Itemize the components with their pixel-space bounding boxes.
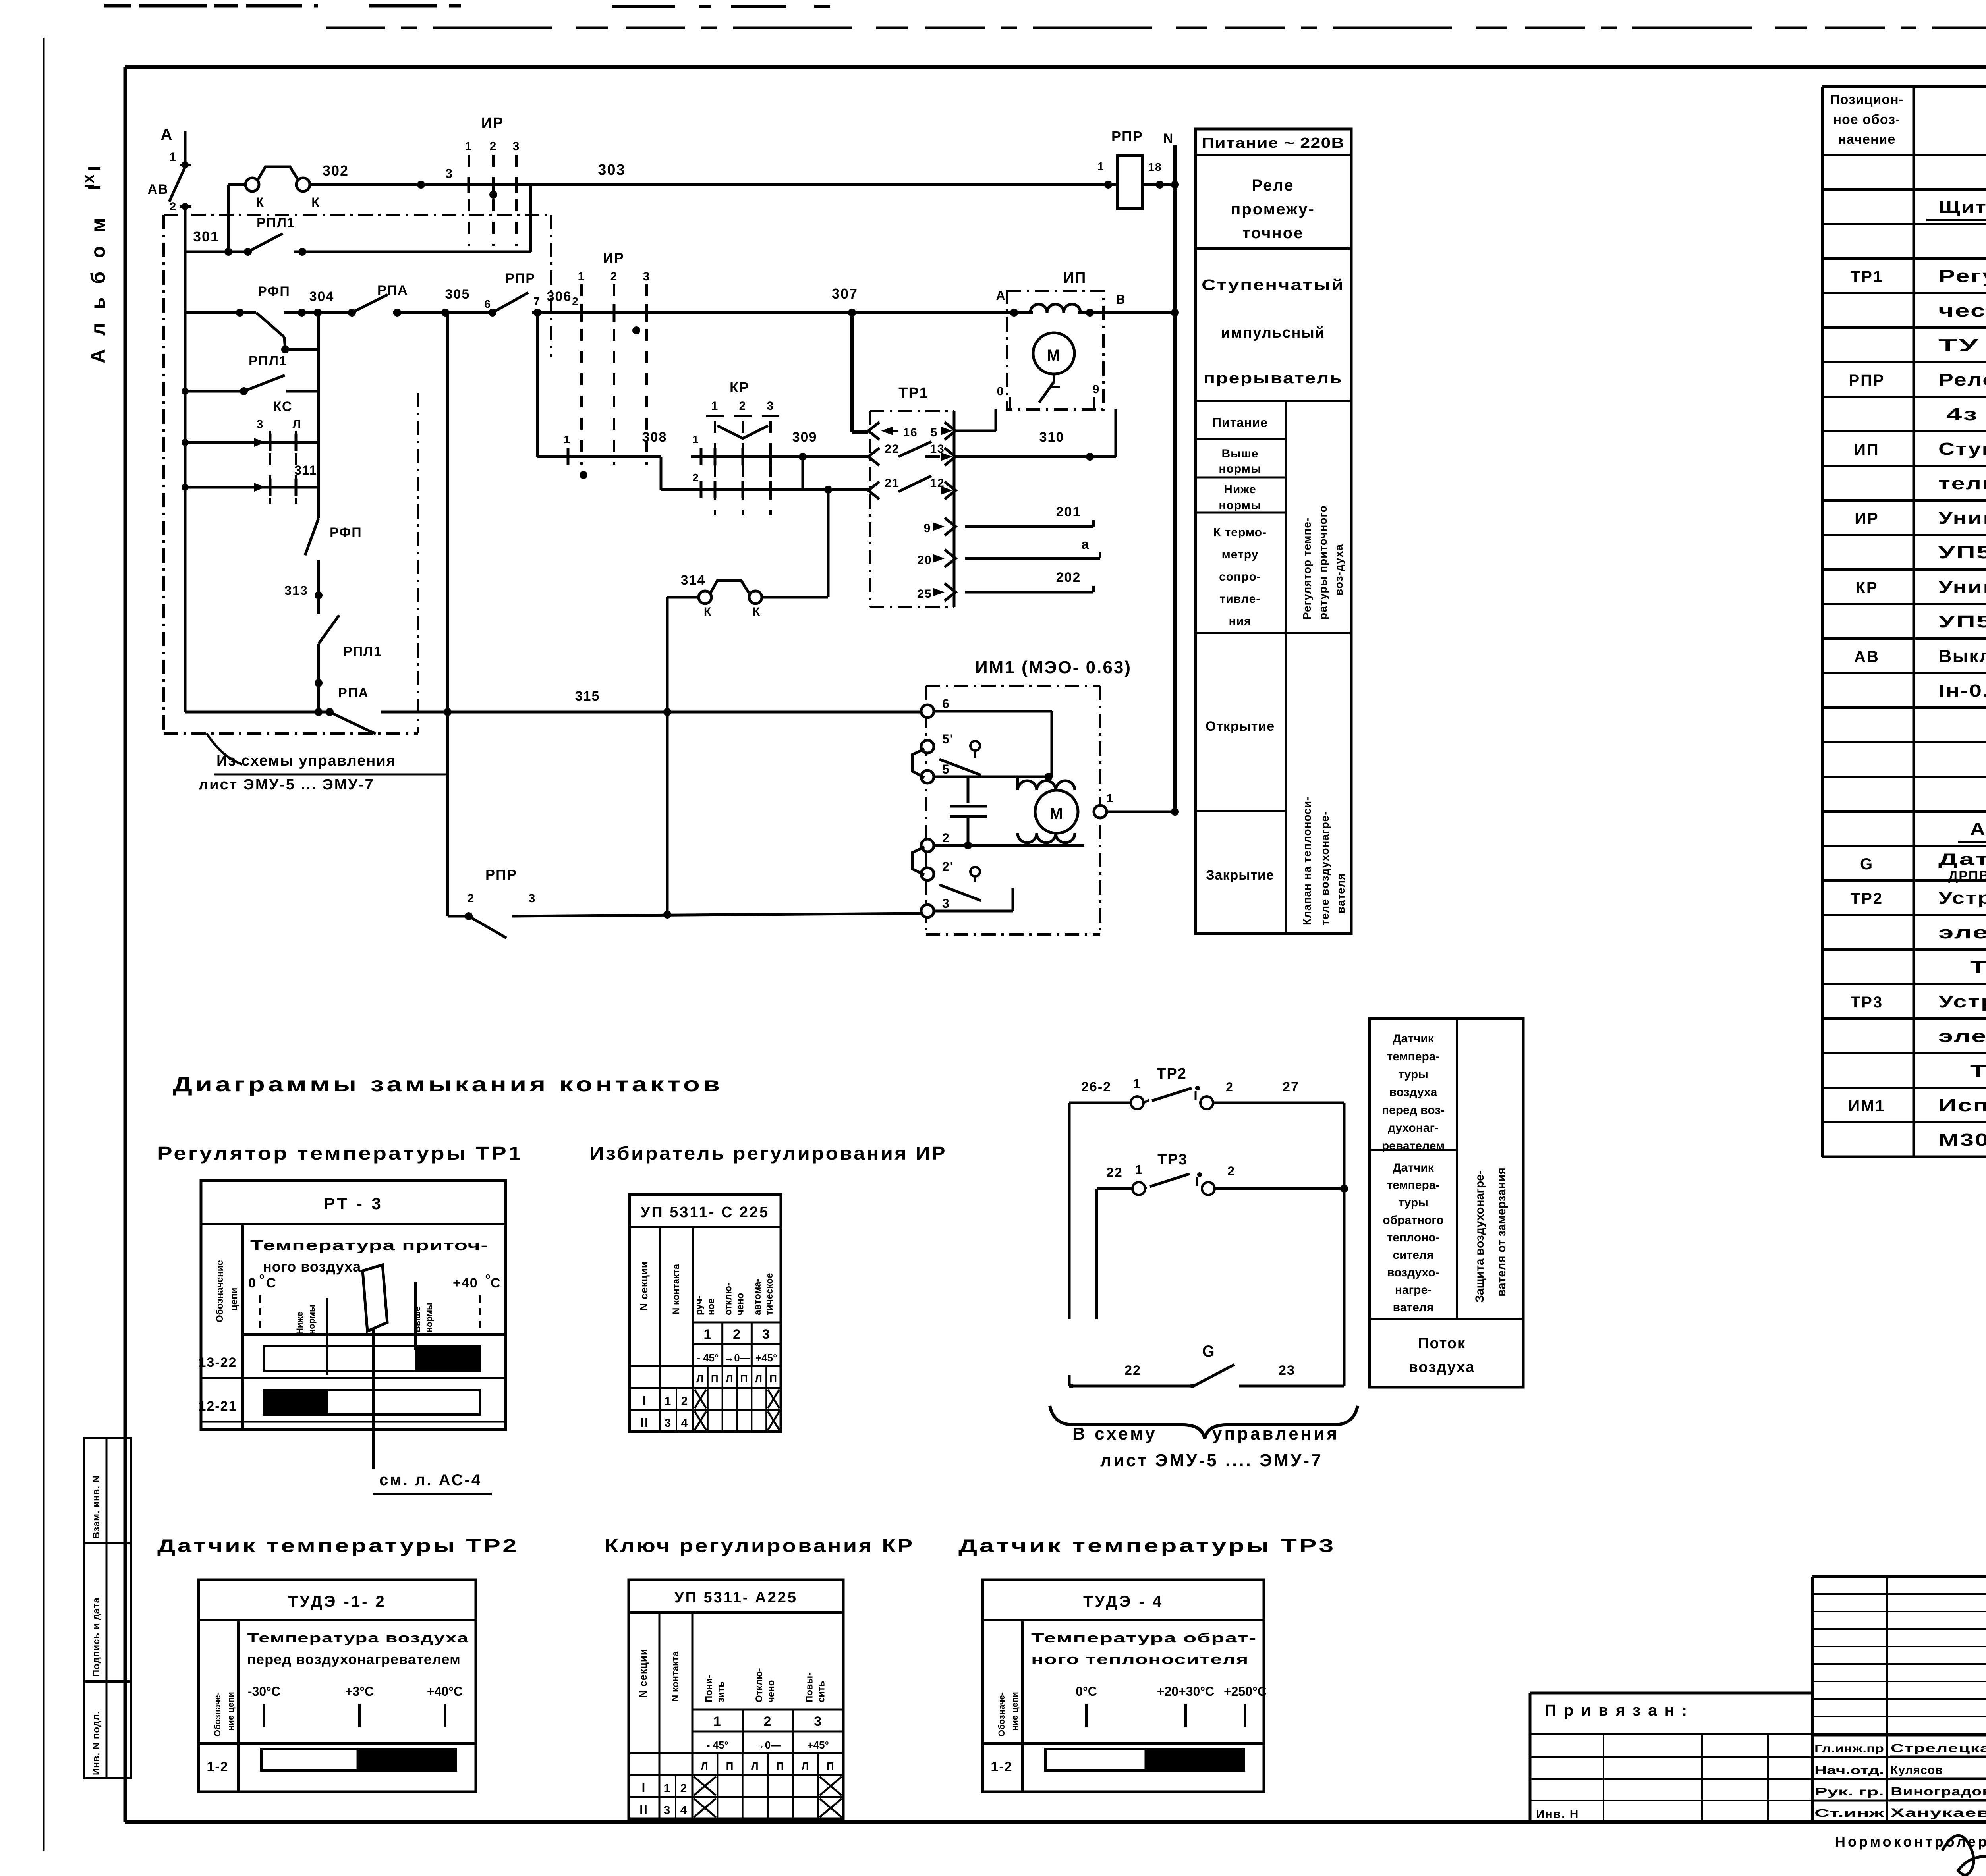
- svg-text:307: 307: [832, 286, 858, 302]
- svg-text:2: 2: [1227, 1164, 1235, 1178]
- svg-text:I: I: [643, 1393, 647, 1408]
- svg-text:21: 21: [885, 477, 899, 490]
- svg-text:Обозначение: Обозначение: [214, 1260, 225, 1322]
- svg-text:управления: управления: [1212, 1424, 1339, 1444]
- svg-text:Инв. Н: Инв. Н: [1536, 1808, 1579, 1821]
- svg-text:Реле: Реле: [1252, 177, 1294, 194]
- svg-text:Кулясов: Кулясов: [1891, 1764, 1943, 1777]
- svg-text:Открытие: Открытие: [1206, 719, 1275, 734]
- svg-text:П: П: [740, 1373, 749, 1385]
- svg-text:20: 20: [917, 554, 932, 567]
- svg-text:Л: Л: [755, 1373, 763, 1385]
- svg-text:Защита воздухонагре-: Защита воздухонагре-: [1473, 1170, 1486, 1303]
- svg-text:Реле промежуточное ПЭ-21УЗ ~: Реле промежуточное ПЭ-21УЗ ~ 220В: [1938, 370, 1986, 390]
- svg-text:Ниже: Ниже: [1224, 483, 1256, 496]
- svg-text:ТР1: ТР1: [1851, 268, 1883, 286]
- svg-text:тическое: тическое: [764, 1273, 775, 1315]
- svg-text:обратного: обратного: [1383, 1214, 1443, 1227]
- svg-text:G: G: [1860, 855, 1874, 873]
- svg-text:N секции: N секции: [637, 1648, 649, 1698]
- svg-text:+40°С: +40°С: [427, 1684, 463, 1698]
- svg-text:РПА: РПА: [377, 283, 408, 298]
- svg-text:ТР2: ТР2: [1157, 1065, 1187, 1082]
- svg-text:I: I: [642, 1781, 646, 1795]
- svg-text:Л: Л: [292, 418, 301, 431]
- svg-text:лист ЭМУ-5 .... ЭМУ-7: лист ЭМУ-5 .... ЭМУ-7: [1100, 1451, 1323, 1470]
- svg-text:Температура обрат-: Температура обрат-: [1031, 1631, 1257, 1646]
- svg-text:ТР3: ТР3: [1157, 1151, 1188, 1168]
- svg-text:П: П: [827, 1760, 835, 1772]
- svg-text:27: 27: [1283, 1079, 1299, 1094]
- svg-text:Л: Л: [751, 1760, 759, 1772]
- svg-text:1: 1: [692, 433, 699, 446]
- svg-text:ного воздуха: ного воздуха: [263, 1258, 361, 1275]
- svg-text:306: 306: [547, 289, 572, 304]
- svg-text:1: 1: [664, 1782, 671, 1795]
- svg-text:4: 4: [680, 1804, 688, 1817]
- svg-text:Повы-: Повы-: [804, 1673, 815, 1702]
- svg-text:304: 304: [309, 289, 334, 304]
- svg-text:6: 6: [484, 298, 491, 310]
- svg-text:Регулятор температуры ТР1: Регулятор температуры ТР1: [157, 1143, 523, 1164]
- svg-text:начение: начение: [1838, 132, 1896, 147]
- svg-text:308: 308: [642, 430, 667, 445]
- svg-text:ДРПВ-2: ДРПВ-2: [1948, 869, 1986, 884]
- svg-text:воз-духа: воз-духа: [1333, 544, 1345, 596]
- svg-text:1: 1: [1107, 792, 1114, 805]
- svg-text:2: 2: [1226, 1080, 1234, 1094]
- svg-text:+250°С: +250°С: [1224, 1684, 1267, 1698]
- svg-text:К: К: [256, 195, 265, 209]
- svg-text:Температура воздуха: Температура воздуха: [247, 1631, 469, 1646]
- svg-text:Закрытие: Закрытие: [1206, 868, 1274, 883]
- svg-text:G: G: [1202, 1343, 1215, 1360]
- svg-text:202: 202: [1056, 570, 1081, 585]
- svg-text:перед воз-: перед воз-: [1382, 1104, 1445, 1117]
- svg-text:Температура приточ-: Температура приточ-: [250, 1237, 489, 1253]
- svg-text:УП5311-А225 ТУ16-524. 074-75: УП5311-А225 ТУ16-524. 074-75: [1938, 612, 1986, 631]
- svg-text:1: 1: [703, 1327, 712, 1342]
- svg-text:КР: КР: [730, 379, 750, 396]
- svg-text:РПА: РПА: [338, 685, 369, 701]
- svg-text:ное: ное: [706, 1298, 717, 1315]
- svg-text:КР: КР: [1855, 579, 1878, 596]
- svg-text:Ханукаева: Ханукаева: [1891, 1807, 1986, 1820]
- svg-text:1: 1: [1133, 1077, 1141, 1091]
- svg-text:3: 3: [762, 1327, 771, 1342]
- svg-text:3: 3: [513, 140, 520, 153]
- svg-text:Универсальный переключатель: Универсальный переключатель: [1938, 508, 1986, 528]
- svg-text:Устройство терморегулирующее: Устройство терморегулирующее: [1938, 992, 1986, 1011]
- svg-text:С: С: [266, 1276, 277, 1291]
- svg-text:Подпись и дата: Подпись и дата: [91, 1597, 102, 1677]
- svg-text:ческий трехпозиционный РТ-: ческий трехпозиционный РТ-3: [1938, 301, 1986, 320]
- svg-text:201: 201: [1056, 504, 1081, 519]
- svg-text:Поток: Поток: [1418, 1335, 1466, 1352]
- svg-text:ИР: ИР: [481, 115, 504, 131]
- svg-text:Пони-: Пони-: [703, 1675, 714, 1702]
- svg-text:4: 4: [681, 1417, 689, 1430]
- svg-text:2: 2: [680, 1782, 688, 1795]
- svg-text:руч-: руч-: [694, 1295, 705, 1315]
- svg-text:N: N: [1163, 131, 1174, 146]
- svg-text:П: П: [711, 1373, 719, 1385]
- svg-text:Ключ регулирования КР: Ключ регулирования КР: [605, 1535, 914, 1556]
- svg-text:воздухо-: воздухо-: [1387, 1266, 1439, 1279]
- svg-text:12-21: 12-21: [199, 1399, 237, 1414]
- svg-text:промежу-: промежу-: [1231, 201, 1315, 218]
- svg-text:РПР: РПР: [505, 271, 535, 286]
- svg-text:сопро-: сопро-: [1219, 570, 1261, 583]
- svg-text:точное: точное: [1242, 224, 1304, 242]
- svg-text:Позицион-: Позицион-: [1830, 92, 1904, 107]
- svg-text:ИМ1: ИМ1: [1848, 1097, 1885, 1115]
- svg-text:В: В: [1116, 292, 1126, 307]
- svg-text:1-2: 1-2: [991, 1759, 1012, 1774]
- svg-text:РПЛ1: РПЛ1: [249, 353, 288, 369]
- svg-text:Избиратель регулирования ИР: Избиратель регулирования ИР: [589, 1143, 947, 1164]
- svg-text:1: 1: [713, 1714, 722, 1729]
- svg-text:2: 2: [764, 1714, 772, 1729]
- svg-text:Исполнительный механизм: Исполнительный механизм: [1938, 1096, 1986, 1115]
- svg-text:Ступенчатый: Ступенчатый: [1202, 277, 1345, 293]
- svg-text:1: 1: [711, 400, 719, 413]
- svg-text:4з + 4р ТУ16-523. 457-74: 4з + 4р ТУ16-523. 457-74: [1946, 405, 1986, 424]
- svg-text:Диаграммы замыкания конт: Диаграммы замыкания контактов: [173, 1073, 723, 1096]
- svg-text:электрическое ТУДЭ-4: электрическое ТУДЭ-4: [1938, 1027, 1986, 1046]
- svg-text:25: 25: [917, 587, 932, 600]
- svg-text:3: 3: [664, 1804, 671, 1817]
- svg-text:зить: зить: [715, 1681, 726, 1702]
- svg-text:314: 314: [681, 573, 706, 588]
- svg-text:ратуры приточного: ратуры приточного: [1317, 505, 1329, 620]
- svg-text:3: 3: [767, 400, 775, 413]
- svg-text:Датчик: Датчик: [1393, 1032, 1434, 1045]
- svg-text:К: К: [753, 605, 761, 618]
- svg-text:ТУДЭ -1- 2: ТУДЭ -1- 2: [288, 1593, 386, 1610]
- svg-text:Iн-0.63А, Iотс-1.3Iн ТУ16-522: Iн-0.63А, Iотс-1.3Iн ТУ16-522.110-74: [1938, 681, 1986, 701]
- svg-text:РПР: РПР: [1111, 128, 1143, 145]
- svg-text:ние цепи: ние цепи: [1010, 1692, 1020, 1731]
- svg-text:цепи: цепи: [229, 1288, 240, 1310]
- svg-text:К: К: [311, 195, 320, 209]
- svg-text:чено: чено: [766, 1680, 777, 1702]
- svg-text:Питание ~ 220В: Питание ~ 220В: [1202, 135, 1345, 151]
- svg-text:II: II: [639, 1803, 648, 1817]
- svg-text:313: 313: [284, 583, 308, 598]
- svg-text:2: 2: [170, 200, 177, 213]
- svg-text:3: 3: [529, 892, 536, 905]
- svg-text:воздуха: воздуха: [1389, 1086, 1437, 1099]
- svg-text:нормы: нормы: [1219, 462, 1261, 475]
- svg-text:0: 0: [248, 1276, 257, 1291]
- svg-text:отклю-: отклю-: [723, 1283, 734, 1315]
- svg-text:Взам. инв. N: Взам. инв. N: [91, 1475, 102, 1539]
- svg-text:Л: Л: [726, 1373, 734, 1385]
- svg-text:2: 2: [490, 140, 497, 153]
- svg-text:С: С: [491, 1276, 501, 1291]
- svg-text:туры: туры: [1398, 1068, 1428, 1081]
- svg-text:о: о: [259, 1272, 265, 1281]
- svg-text:+20+30°С: +20+30°С: [1157, 1684, 1214, 1698]
- svg-text:Универсальный переключатель: Универсальный переключатель: [1938, 577, 1986, 597]
- svg-text:22: 22: [1106, 1165, 1123, 1180]
- svg-text:ТР1: ТР1: [898, 385, 929, 401]
- svg-text:туры: туры: [1398, 1196, 1428, 1209]
- svg-text:Датчик температуры ТР2: Датчик температуры ТР2: [157, 1535, 519, 1556]
- svg-text:Регулятор температуры элек: Регулятор температуры электри-: [1938, 266, 1986, 286]
- svg-text:0: 0: [997, 385, 1005, 398]
- svg-text:М: М: [1049, 805, 1063, 822]
- svg-text:лист ЭМУ-5 ... ЭМУ-7: лист ЭМУ-5 ... ЭМУ-7: [199, 776, 375, 793]
- svg-text:РПЛ1: РПЛ1: [257, 215, 296, 230]
- svg-text:1: 1: [665, 1395, 672, 1408]
- svg-text:N секции: N секции: [638, 1261, 650, 1310]
- svg-text:2: 2: [572, 295, 579, 307]
- svg-text:Из схемы управления: Из схемы управления: [216, 753, 396, 769]
- svg-text:Выше: Выше: [1222, 447, 1259, 460]
- svg-text:22: 22: [1124, 1363, 1141, 1378]
- svg-text:ТР2: ТР2: [1851, 890, 1883, 907]
- svg-text:М: М: [1047, 347, 1061, 364]
- svg-text:РПЛ1: РПЛ1: [343, 644, 382, 659]
- svg-text:311: 311: [294, 463, 317, 477]
- svg-text:2: 2: [610, 270, 618, 283]
- svg-text:1: 1: [465, 140, 473, 153]
- svg-text:1: 1: [1097, 160, 1105, 172]
- svg-text:ИП: ИП: [1063, 270, 1087, 286]
- svg-text:АВ: АВ: [1854, 648, 1880, 666]
- svg-text:тивле-: тивле-: [1220, 593, 1261, 606]
- svg-text:сить: сить: [816, 1681, 827, 1702]
- svg-text:А: А: [161, 126, 173, 143]
- svg-text:302: 302: [323, 162, 349, 179]
- svg-text:ИП: ИП: [1854, 441, 1880, 458]
- svg-text:3: 3: [665, 1417, 672, 1430]
- svg-text:УП5311-С225 ТУ16-524. 074-75: УП5311-С225 ТУ16-524. 074-75: [1938, 543, 1986, 562]
- svg-text:Ступенчатый импульсный преры: Ступенчатый импульсный прерыва-: [1938, 439, 1986, 459]
- svg-text:1: 1: [1135, 1162, 1143, 1177]
- svg-text:Датчик: Датчик: [1393, 1161, 1434, 1174]
- svg-text:Датчик температуры ТР3: Датчик температуры ТР3: [958, 1535, 1336, 1556]
- svg-text:2: 2: [733, 1327, 741, 1342]
- svg-text:II: II: [640, 1415, 649, 1430]
- svg-text:Регулятор темпе-: Регулятор темпе-: [1301, 517, 1313, 620]
- svg-text:+3°С: +3°С: [345, 1684, 374, 1698]
- svg-text:РПР: РПР: [485, 867, 517, 883]
- svg-text:темпера-: темпера-: [1387, 1179, 1440, 1192]
- svg-text:1: 1: [170, 151, 177, 164]
- svg-text:315: 315: [575, 689, 600, 704]
- svg-text:электрическое ТУДЭ-1-2: электрическое ТУДЭ-1-2: [1938, 923, 1986, 942]
- svg-text:2: 2: [942, 831, 950, 845]
- svg-text:ИР: ИР: [603, 250, 624, 266]
- svg-text:3: 3: [445, 166, 453, 181]
- svg-text:ного теплоносителя: ного теплоносителя: [1031, 1652, 1249, 1667]
- svg-text:23: 23: [1279, 1363, 1295, 1378]
- svg-text:импульсный: импульсный: [1221, 324, 1325, 341]
- svg-text:IX: IX: [82, 174, 97, 188]
- svg-text:1-2: 1-2: [207, 1759, 228, 1774]
- svg-text:УП 5311- С 225: УП 5311- С 225: [641, 1204, 770, 1221]
- svg-text:перед воздухонагревателем: перед воздухонагревателем: [247, 1652, 461, 1667]
- svg-text:Нач.отд.: Нач.отд.: [1814, 1764, 1884, 1776]
- svg-text:Стрелецкая: Стрелецкая: [1891, 1742, 1986, 1755]
- svg-text:5: 5: [931, 426, 938, 439]
- svg-text:→0—: →0—: [755, 1739, 781, 1751]
- svg-text:2: 2: [739, 400, 747, 413]
- svg-text:5': 5': [942, 732, 954, 746]
- svg-text:АВ: АВ: [147, 182, 168, 197]
- svg-text:Щит регулирования 6ЩРВ (7ЩРВ,1: Щит регулирования 6ЩРВ (7ЩРВ,13ЩРВ,17ЩРВ…: [1938, 198, 1986, 217]
- svg-text:+45°: +45°: [755, 1352, 777, 1364]
- svg-text:Датчик-реле потока воздуха: Датчик-реле потока воздуха: [1938, 851, 1986, 868]
- svg-text:КС: КС: [273, 399, 293, 414]
- svg-text:6: 6: [942, 697, 950, 711]
- svg-text:Ниже: Ниже: [295, 1312, 305, 1334]
- svg-text:ТУДЭ - 4: ТУДЭ - 4: [1083, 1593, 1163, 1610]
- svg-text:теле воздухонагре-: теле воздухонагре-: [1319, 811, 1331, 925]
- svg-text:26-2: 26-2: [1081, 1079, 1111, 1094]
- svg-text:→0—: →0—: [724, 1352, 750, 1364]
- svg-text:метру: метру: [1222, 548, 1259, 561]
- svg-text:303: 303: [598, 162, 625, 178]
- svg-text:18: 18: [1148, 161, 1162, 173]
- svg-text:16: 16: [903, 426, 918, 439]
- svg-text:Клапан на теплоноси-: Клапан на теплоноси-: [1301, 797, 1313, 925]
- svg-text:П р и в я з а н :: П р и в я з а н :: [1545, 1702, 1688, 1719]
- svg-text:1: 1: [564, 433, 571, 446]
- svg-text:сителя: сителя: [1393, 1249, 1433, 1262]
- svg-text:ревателем: ревателем: [1382, 1139, 1445, 1152]
- svg-text:ТР3: ТР3: [1851, 994, 1883, 1011]
- svg-text:П: П: [776, 1760, 784, 1772]
- svg-text:Обозначе-: Обозначе-: [213, 1692, 222, 1737]
- svg-text:РПР: РПР: [1849, 372, 1885, 389]
- svg-text:К термо-: К термо-: [1213, 526, 1267, 539]
- svg-text:+45°: +45°: [807, 1739, 829, 1751]
- svg-text:9: 9: [924, 522, 931, 535]
- svg-text:Л: Л: [696, 1373, 704, 1385]
- svg-text:РФП: РФП: [258, 284, 290, 299]
- svg-text:нормы: нормы: [424, 1303, 434, 1332]
- svg-text:теплоно-: теплоно-: [1387, 1231, 1440, 1244]
- svg-text:Инв. N подл.: Инв. N подл.: [91, 1711, 102, 1775]
- svg-text:0°С: 0°С: [1076, 1684, 1097, 1698]
- svg-text:РФП: РФП: [330, 525, 362, 540]
- svg-text:1: 1: [578, 270, 585, 283]
- svg-text:7: 7: [533, 295, 541, 307]
- svg-text:П: П: [769, 1373, 778, 1385]
- svg-text:П: П: [726, 1760, 734, 1772]
- svg-text:Отклю-: Отклю-: [754, 1668, 765, 1702]
- svg-text:Гл.инж.пр: Гл.инж.пр: [1814, 1742, 1884, 1754]
- svg-text:305: 305: [445, 287, 470, 302]
- svg-text:3: 3: [643, 270, 651, 283]
- svg-text:-30°С: -30°С: [248, 1684, 280, 1698]
- svg-text:13-22: 13-22: [199, 1355, 237, 1370]
- svg-text:тель СИП-01М ТУ 50.108-77: тель СИП-01М ТУ 50.108-77: [1938, 474, 1986, 493]
- svg-text:Ст.инж: Ст.инж: [1814, 1807, 1885, 1819]
- svg-text:прерыватель: прерыватель: [1204, 370, 1343, 387]
- svg-text:духонаг-: духонаг-: [1388, 1121, 1439, 1135]
- svg-text:К: К: [704, 605, 712, 618]
- svg-text:2: 2: [681, 1395, 689, 1408]
- svg-text:РТ - 3: РТ - 3: [324, 1194, 383, 1213]
- svg-text:ТУ 25-02. 202114-78: ТУ 25-02. 202114-78: [1938, 336, 1986, 355]
- svg-text:- 45°: - 45°: [707, 1739, 728, 1751]
- svg-text:А л ь б о м: А л ь б о м: [87, 214, 109, 363]
- svg-text:Л: Л: [802, 1760, 809, 1772]
- svg-text:автома-: автома-: [752, 1279, 763, 1315]
- svg-text:3: 3: [942, 896, 950, 911]
- svg-text:2: 2: [468, 892, 475, 905]
- svg-text:М30-0.63/63-0.25 ТУ1-01. 03: М30-0.63/63-0.25 ТУ1-01. 0321-75: [1938, 1130, 1986, 1150]
- svg-text:22: 22: [885, 442, 899, 455]
- svg-text:3: 3: [814, 1714, 822, 1729]
- svg-text:2: 2: [692, 471, 699, 484]
- svg-text:ТУ 25-02. 1074-75: ТУ 25-02. 1074-75: [1970, 1061, 1986, 1081]
- svg-text:Выше: Выше: [412, 1307, 422, 1332]
- svg-text:Аппаратура по месту: Аппаратура по месту: [1970, 819, 1986, 839]
- svg-text:Виноградова: Виноградова: [1891, 1785, 1986, 1798]
- svg-text:чено: чено: [735, 1293, 746, 1315]
- svg-text:УП 5311- А225: УП 5311- А225: [674, 1589, 798, 1606]
- svg-text:2': 2': [942, 859, 954, 874]
- svg-text:+40: +40: [453, 1276, 478, 1291]
- svg-text:N контакта: N контакта: [671, 1264, 682, 1314]
- svg-text:Питание: Питание: [1212, 415, 1268, 430]
- svg-text:нормы: нормы: [307, 1305, 317, 1334]
- svg-text:Выключатель автоматический А63: Выключатель автоматический А63-МУЗ~220В: [1938, 647, 1986, 666]
- svg-text:309: 309: [792, 430, 817, 445]
- svg-text:301: 301: [193, 228, 219, 245]
- svg-text:ние цепи: ние цепи: [226, 1692, 236, 1731]
- svg-text:А: А: [996, 288, 1006, 303]
- svg-text:а: а: [1082, 537, 1090, 552]
- svg-text:Рук. гр.: Рук. гр.: [1814, 1785, 1884, 1798]
- svg-text:вателя: вателя: [1335, 873, 1347, 913]
- svg-text:нагре-: нагре-: [1395, 1283, 1432, 1297]
- svg-text:- 45°: - 45°: [697, 1352, 719, 1364]
- svg-text:нормы: нормы: [1219, 499, 1261, 512]
- svg-text:Обозначе-: Обозначе-: [997, 1692, 1007, 1737]
- svg-text:ИМ1 (МЭО- 0.63): ИМ1 (МЭО- 0.63): [975, 658, 1132, 677]
- svg-text:310: 310: [1039, 430, 1064, 445]
- svg-text:воздуха: воздуха: [1409, 1359, 1475, 1376]
- svg-text:ное обоз-: ное обоз-: [1833, 112, 1901, 127]
- svg-text:N контакта: N контакта: [670, 1651, 681, 1702]
- svg-text:см. л. АС-4: см. л. АС-4: [379, 1471, 482, 1489]
- svg-text:9: 9: [1093, 383, 1100, 396]
- svg-text:Л: Л: [701, 1760, 709, 1772]
- svg-text:темпера-: темпера-: [1387, 1050, 1440, 1063]
- svg-text:ТУ 25-02, 1074-75: ТУ 25-02, 1074-75: [1970, 957, 1986, 977]
- svg-text:вателя: вателя: [1393, 1301, 1434, 1314]
- svg-text:Устройство терморегулирующее: Устройство терморегулирующее: [1938, 888, 1986, 908]
- svg-text:ИР: ИР: [1855, 510, 1879, 527]
- svg-text:ния: ния: [1229, 615, 1251, 628]
- svg-text:В схему: В схему: [1072, 1424, 1157, 1444]
- svg-text:3: 3: [257, 418, 264, 431]
- svg-text:вателя от замерзания: вателя от замерзания: [1495, 1168, 1508, 1297]
